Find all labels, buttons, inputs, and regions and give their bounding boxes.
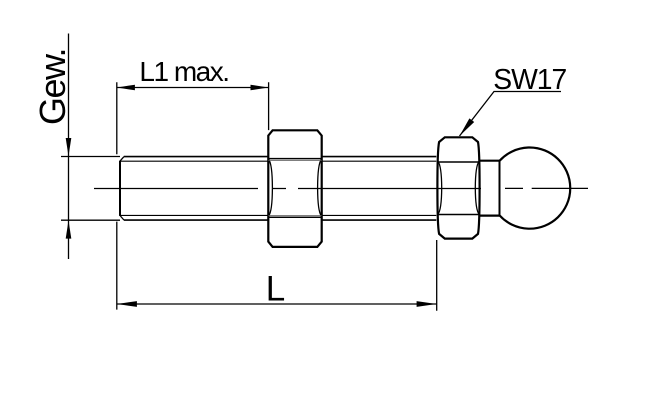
threaded rod — [120, 157, 436, 221]
dimension Gew. arrowheads — [66, 138, 72, 239]
dimension L line — [117, 222, 437, 311]
neck — [480, 160, 500, 216]
svg-text:L: L — [266, 269, 285, 308]
hex SW17 — [437, 137, 479, 238]
ball — [500, 148, 571, 229]
centerline — [94, 187, 588, 189]
leader SW17 arrowhead — [460, 118, 475, 136]
dimension Gew. line — [61, 34, 120, 260]
dimension L1 max. line — [117, 82, 269, 154]
dimension L1 max. arrowheads — [117, 85, 269, 91]
hex nut — [268, 130, 321, 247]
svg-text:L1 max.: L1 max. — [139, 56, 228, 87]
dimension L arrowheads — [117, 301, 437, 307]
svg-text:SW17: SW17 — [493, 63, 566, 95]
svg-text:Gew.: Gew. — [32, 49, 73, 125]
leader SW17 — [460, 92, 562, 137]
